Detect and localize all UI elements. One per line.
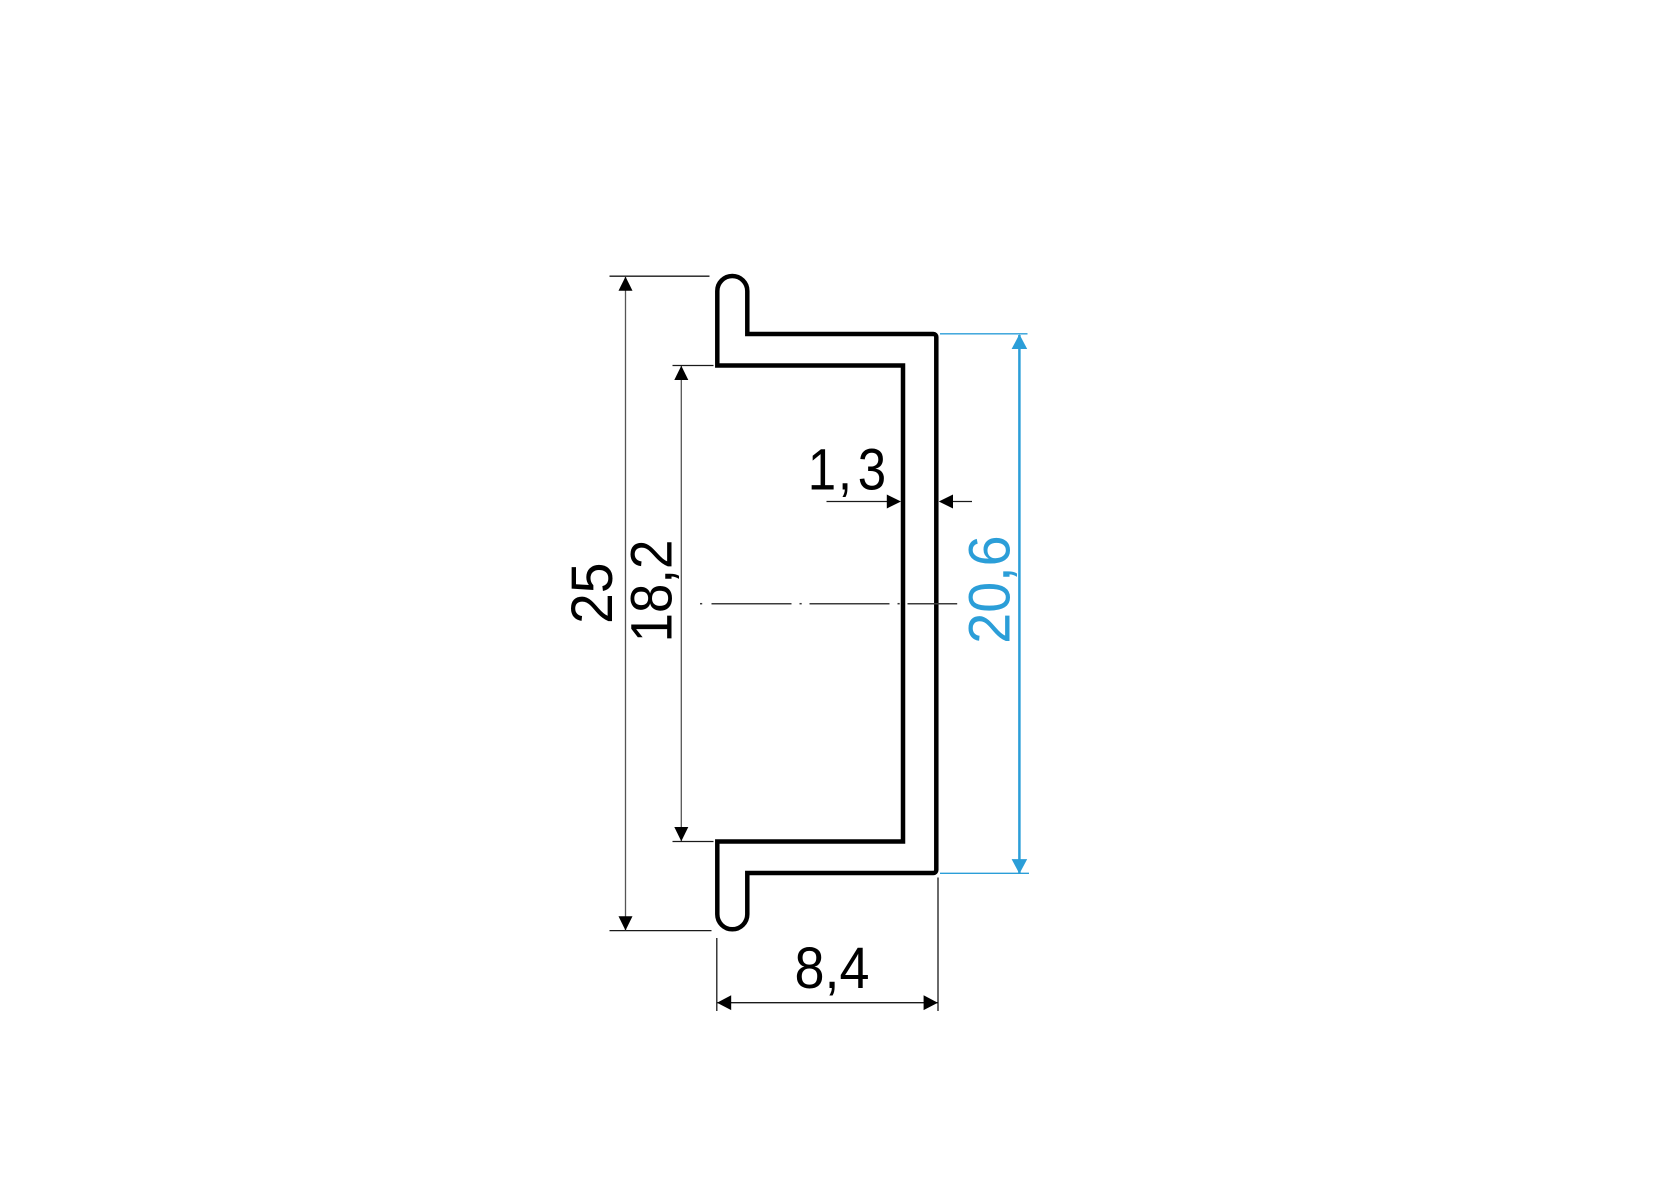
dimension 25 line (625, 277, 627, 930)
dimension 8,4 arrow right-pointing (924, 995, 938, 1010)
dimension 1,3 arrow right-pointing (887, 495, 901, 509)
dimension 25 arrow up (619, 277, 633, 291)
profile outline (717, 276, 936, 929)
dimension 8,4 arrow left-pointing (717, 995, 731, 1010)
dimension 1,3 arrow left-pointing (939, 495, 953, 509)
dimension 8,4 extension line right (937, 878, 939, 1012)
dimension 25 extension line bottom (610, 930, 712, 932)
svg-text:,: , (838, 438, 852, 503)
dimension 18,2 arrow down (674, 827, 688, 841)
dimension 18,2 extension line top (673, 365, 714, 367)
dimension 8,4 extension line left (716, 938, 718, 1011)
dimension 20,6 extension line top (blue) (940, 333, 1028, 335)
dimension 25 arrow down (619, 916, 633, 930)
dimension 25 label (560, 563, 625, 624)
dimension 20,6 label (blue) (958, 535, 1022, 643)
dimension 1,3 line right (952, 501, 972, 503)
dimension 18,2 label (619, 540, 684, 643)
svg-text:8,4: 8,4 (795, 935, 870, 1000)
svg-text:18,2: 18,2 (619, 540, 684, 643)
dimension 1,3 label (808, 438, 886, 503)
dimension 20,6 arrow down (blue) (1012, 859, 1028, 874)
svg-text:1: 1 (808, 438, 836, 503)
dimension 18,2 extension line bottom (673, 841, 714, 843)
svg-text:3: 3 (858, 438, 886, 503)
svg-text:20,6: 20,6 (958, 535, 1022, 643)
dimension 18,2 line (680, 366, 682, 841)
svg-text:25: 25 (560, 563, 625, 624)
dimension 25 extension line top (610, 275, 710, 277)
dimension 20,6 extension line bottom (blue) (940, 872, 1029, 874)
dimension 8,4 label (795, 935, 870, 1000)
dimension 18,2 arrow up (674, 366, 688, 380)
dimension 8,4 line (718, 1002, 938, 1004)
dimension 1,3 line left (827, 501, 889, 503)
dimension 20,6 arrow up (blue) (1012, 334, 1028, 349)
center line (700, 603, 957, 605)
dimension 20,6 line (blue) (1018, 335, 1021, 873)
